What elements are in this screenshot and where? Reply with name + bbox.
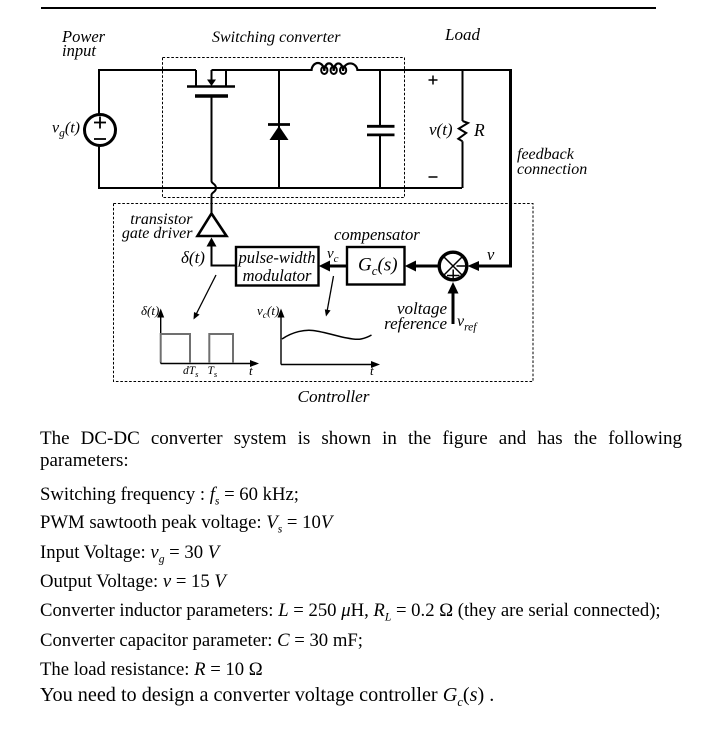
dashed box: switching converter [163, 58, 405, 198]
svg-text:δ(t): δ(t) [181, 248, 205, 267]
compensator box G_c(s) [347, 247, 405, 285]
slanted arrow to v_c curve [327, 276, 333, 310]
svg-text:R: R [473, 120, 485, 140]
svg-text:v(t): v(t) [429, 120, 453, 139]
delta(t) pulses (gray) [161, 334, 190, 363]
svg-text:input: input [62, 41, 96, 60]
load resistor R [462, 70, 464, 121]
svg-text:Switching converter: Switching converter [212, 29, 341, 46]
svg-text:Controller: Controller [298, 387, 370, 406]
svg-text:t: t [370, 363, 374, 378]
PWM box [236, 247, 319, 286]
slanted arrow to delta pulses [197, 275, 217, 314]
svg-text:gate driver: gate driver [122, 225, 193, 242]
summing junction [439, 252, 467, 280]
svg-text:vg(t): vg(t) [52, 120, 80, 140]
svg-text:Ts: Ts [208, 365, 218, 379]
feedback wire [462, 69, 512, 71]
MOSFET Q1 [195, 70, 197, 86]
v_c(t) curve [282, 330, 372, 339]
wire: bottom [99, 146, 462, 188]
inductor L [312, 63, 358, 71]
svg-text:Gc(s): Gc(s) [358, 255, 398, 279]
wire: top right segment [212, 69, 313, 71]
diode D1 [278, 70, 280, 188]
capacitor C [379, 70, 381, 125]
gate driver triangle U1 [198, 214, 227, 237]
svg-text:reference: reference [384, 314, 447, 333]
dashed box: controller [114, 204, 534, 382]
arrow summing to G_c [416, 265, 438, 268]
svg-text:Load: Load [444, 25, 480, 44]
svg-text:vc(t): vc(t) [257, 303, 279, 321]
+ / - load marks [429, 79, 438, 81]
v_ref arrow [452, 292, 455, 324]
wire: top left segment [99, 70, 196, 114]
gate wire with hop over bottom wire [211, 98, 213, 182]
svg-text:dTs: dTs [183, 365, 199, 379]
svg-text:t: t [249, 363, 253, 378]
svg-text:vref: vref [457, 313, 478, 334]
source v_g(t) [85, 115, 116, 146]
svg-text:connection: connection [517, 161, 587, 178]
circuit figure [0, 0, 722, 420]
waveform delta(t) axes [160, 316, 162, 364]
arrow G_c to PWM [330, 265, 347, 268]
arrow from PWM to driver [212, 245, 237, 266]
paragraph text [40, 428, 682, 472]
svg-text:pulse-width: pulse-width [238, 248, 316, 267]
waveform v_c(t) axes [280, 316, 282, 365]
svg-text:modulator: modulator [243, 266, 312, 285]
svg-text:v: v [487, 245, 495, 264]
top rule [41, 7, 656, 9]
svg-text:δ(t): δ(t) [141, 303, 159, 318]
svg-text:compensator: compensator [334, 225, 420, 244]
